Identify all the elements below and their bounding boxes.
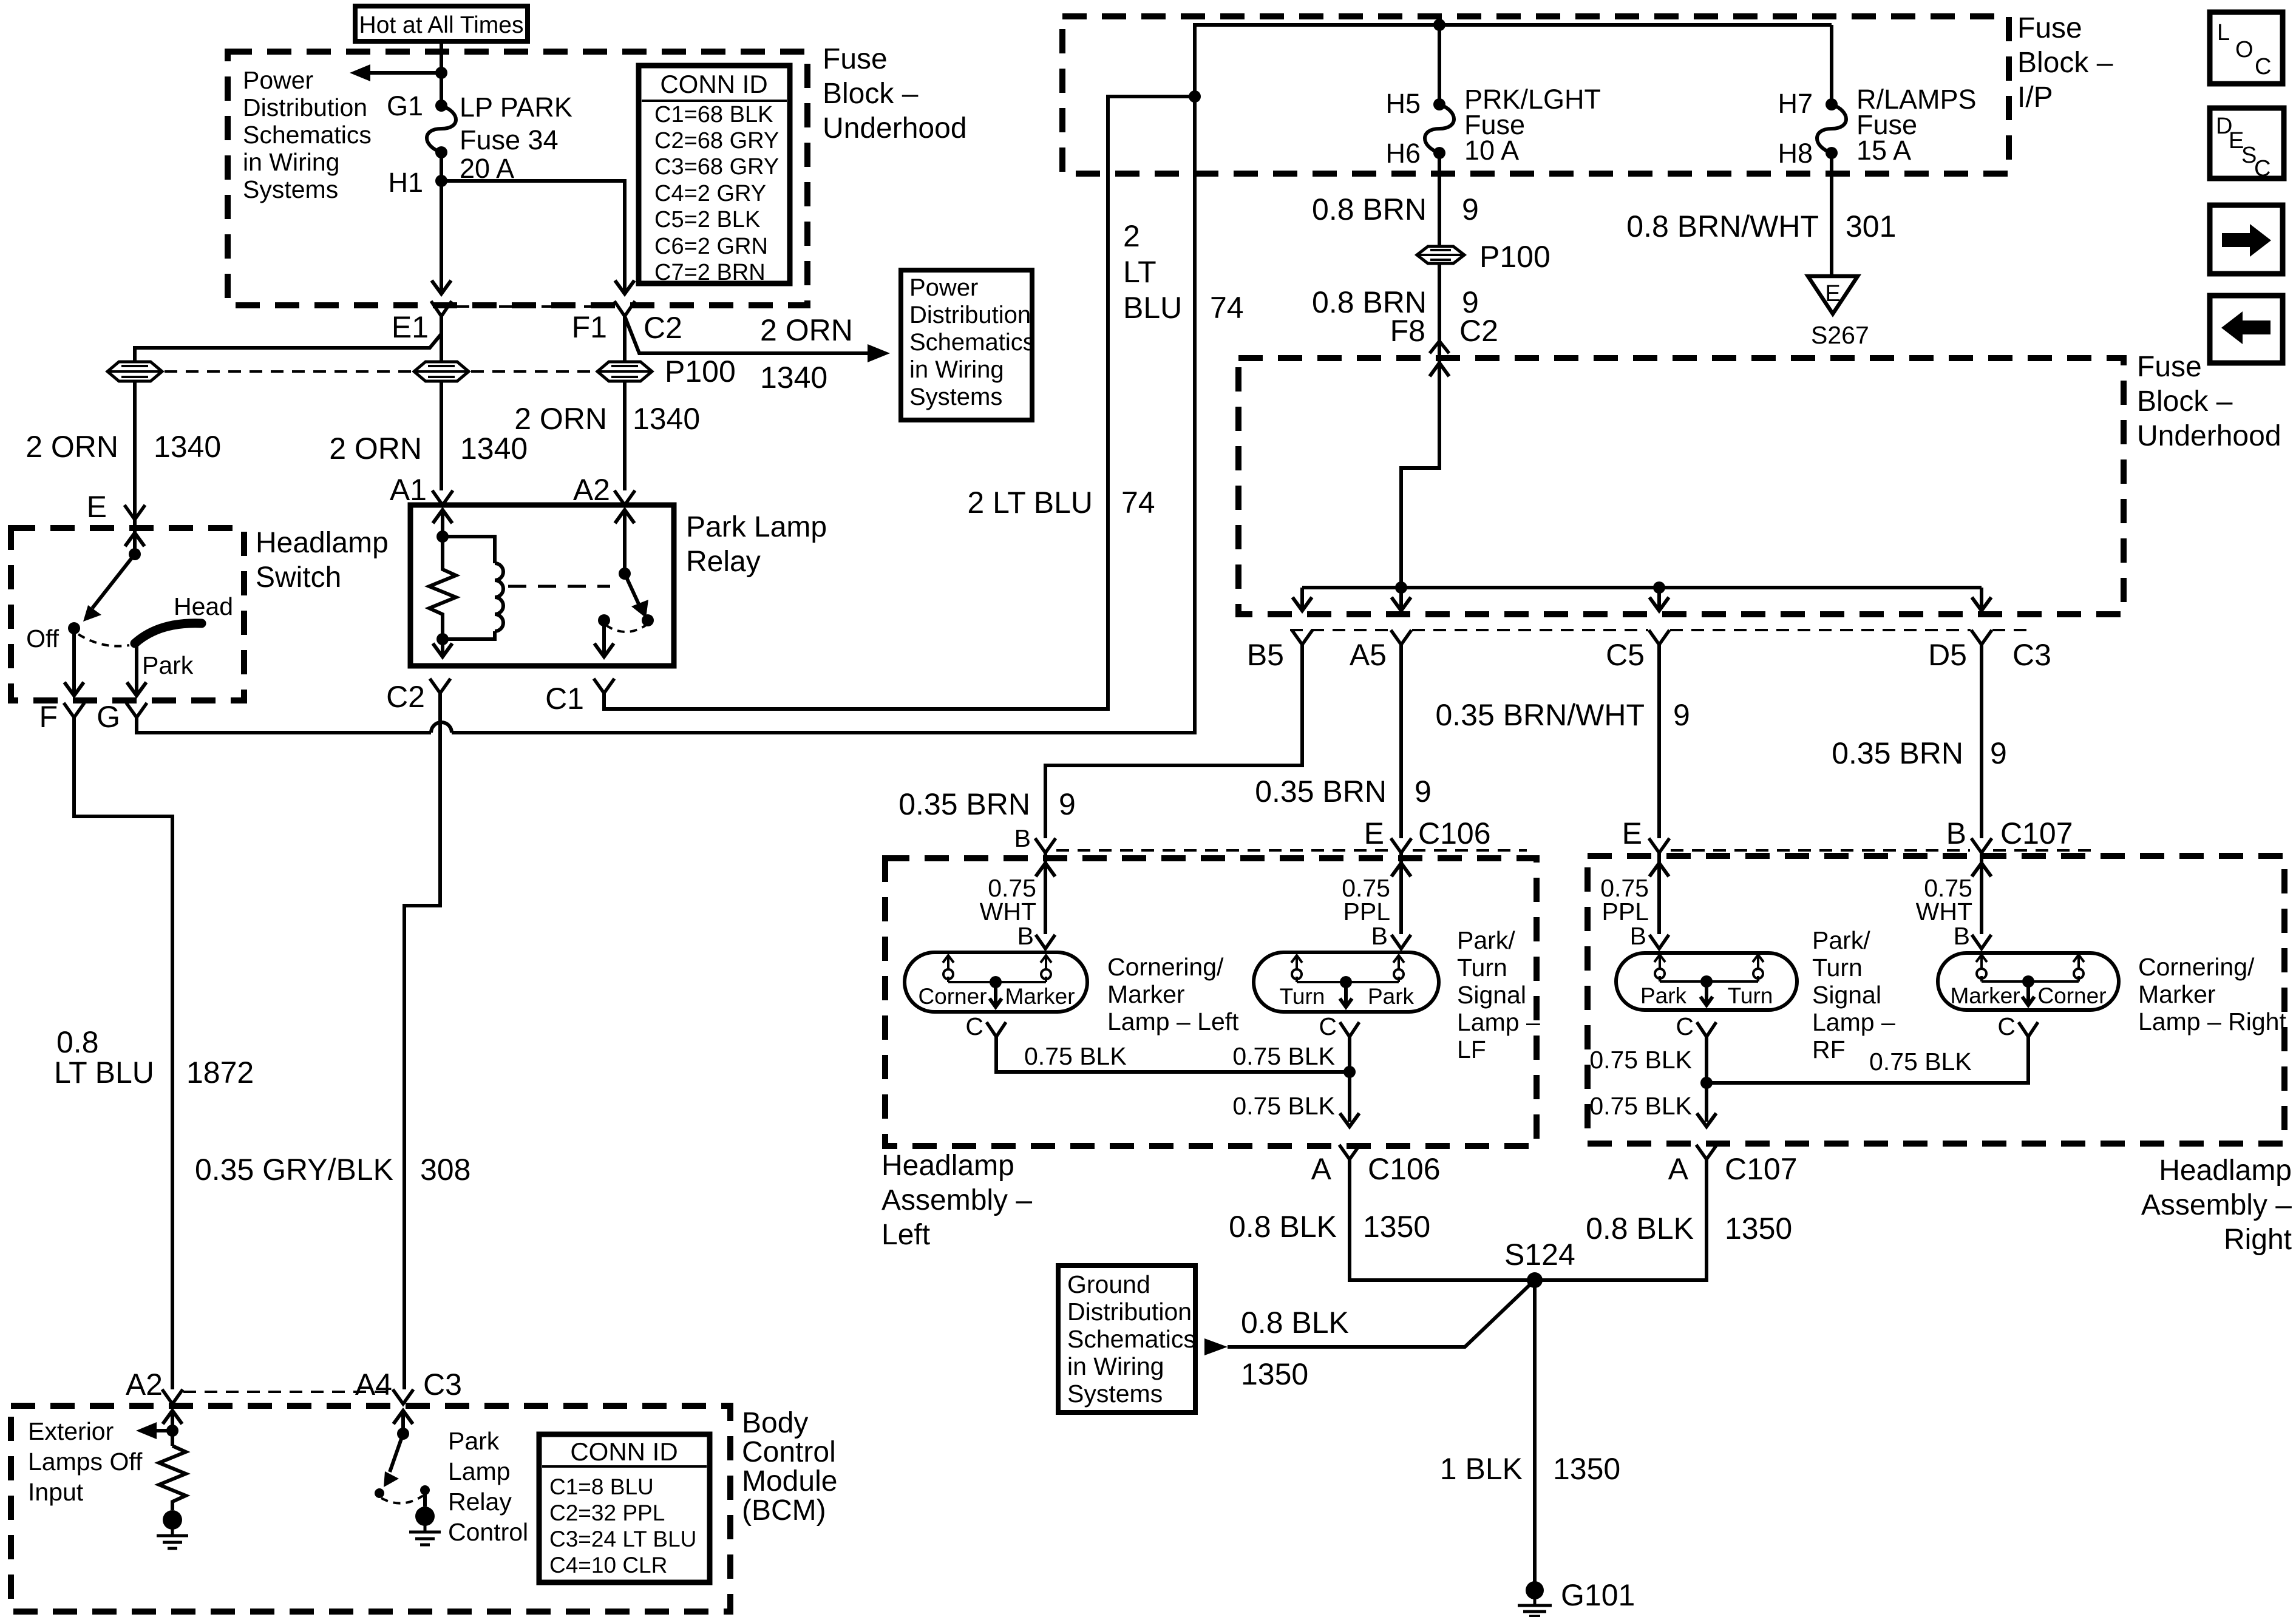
Fuse Block - Underhood (right) dashed box xyxy=(1238,358,2124,614)
arrowhead into Power Distribution Schematics (filled, right) xyxy=(868,344,890,362)
svg-text:G101: G101 xyxy=(1561,1578,1635,1612)
svg-text:C: C xyxy=(1319,1012,1337,1040)
lamp: Park/Turn Signal Lamp - RF xyxy=(1616,953,1797,1010)
inline connector grommet (E wire) xyxy=(107,362,162,381)
svg-text:0.75 BLK: 0.75 BLK xyxy=(1869,1048,1972,1076)
svg-text:S124: S124 xyxy=(1504,1238,1575,1272)
svg-text:Lamp –: Lamp – xyxy=(1812,1008,1895,1036)
connector line E1-F1 (dashed) xyxy=(457,305,610,308)
svg-text:E1: E1 xyxy=(392,310,429,344)
splice symbol S267 (triangle) xyxy=(1808,276,1858,314)
svg-text:9: 9 xyxy=(1415,775,1432,808)
wire P100 down to F8 xyxy=(1438,263,1441,358)
svg-text:Left: Left xyxy=(881,1219,930,1251)
node: switch pivot xyxy=(129,548,141,560)
svg-text:0.35 BRN: 0.35 BRN xyxy=(1832,736,1963,770)
svg-text:Body: Body xyxy=(742,1407,808,1439)
svg-text:Control: Control xyxy=(448,1518,528,1546)
label: Headlamp Assembly - Right xyxy=(2141,1154,2292,1256)
svg-text:Headlamp: Headlamp xyxy=(2159,1154,2292,1187)
svg-text:Marker: Marker xyxy=(1005,984,1075,1009)
svg-text:A: A xyxy=(1311,1152,1332,1186)
connector chevron C (left park/turn lamp) xyxy=(1340,1022,1359,1037)
svg-text:1350: 1350 xyxy=(1725,1212,1792,1246)
wire BCM contact to ground xyxy=(423,1490,427,1507)
label 0.75 / PPL (right) xyxy=(1600,874,1649,926)
wire down to PRK/LGHT fuse xyxy=(1438,25,1441,104)
connector chevron B (C107) xyxy=(1971,838,1992,853)
svg-text:Control: Control xyxy=(742,1436,836,1468)
wire H6 down to P100 xyxy=(1438,153,1441,246)
svg-text:74: 74 xyxy=(1121,486,1155,520)
Park Lamp Relay box xyxy=(410,505,674,666)
svg-text:S267: S267 xyxy=(1811,321,1869,349)
arrowhead of switch arm (filled) xyxy=(83,605,101,622)
svg-text:E: E xyxy=(87,490,107,524)
svg-text:in Wiring: in Wiring xyxy=(909,356,1004,383)
wire S124 to ground distribution xyxy=(1228,1280,1535,1347)
resistor (BCM input) xyxy=(159,1446,186,1510)
inline connector grommet P100 (I/P) xyxy=(1417,246,1464,263)
wire F8 into underhood fuse block xyxy=(1401,358,1439,588)
wire A C107 down to S124 xyxy=(1535,1159,1707,1280)
svg-text:B: B xyxy=(1014,824,1031,852)
arrowhead down at F exit xyxy=(64,682,84,696)
connector chevron A1 xyxy=(432,490,453,505)
arrowhead down at D5 xyxy=(1972,597,1991,611)
connector chevron B (left park/turn lamp) xyxy=(1391,935,1411,949)
wire A4 into BCM xyxy=(401,1411,405,1434)
dashed arc between BCM contacts xyxy=(381,1496,423,1503)
label 0.75 / PPL (left) xyxy=(1342,874,1390,926)
svg-text:in Wiring: in Wiring xyxy=(243,148,339,176)
label: Cornering/ Marker Lamp - Right xyxy=(2138,953,2286,1036)
svg-text:2 LT BLU: 2 LT BLU xyxy=(967,486,1093,520)
wire Park contact down to G xyxy=(135,644,138,696)
svg-text:Marker: Marker xyxy=(1950,983,2020,1008)
svg-text:G: G xyxy=(97,700,120,734)
svg-text:Block –: Block – xyxy=(2017,47,2113,79)
inline connector grommet (A1 wire) xyxy=(414,362,469,381)
label 0.75 / WHT (right) xyxy=(1916,874,1972,926)
next-page arrow box (right) xyxy=(2210,205,2283,274)
svg-text:9: 9 xyxy=(1462,192,1479,226)
svg-text:(BCM): (BCM) xyxy=(742,1494,826,1527)
arrowhead down at C2 exit xyxy=(433,643,452,657)
svg-text:C5: C5 xyxy=(1606,638,1645,672)
arrowhead down at A5 xyxy=(1391,597,1411,611)
arrowhead down at C5 xyxy=(1649,597,1669,611)
wire bus drop B5 xyxy=(1300,588,1304,611)
svg-text:C3=68 GRY: C3=68 GRY xyxy=(654,154,779,180)
svg-text:F: F xyxy=(39,700,58,734)
Fuse Block - Underhood (top-left) dashed box xyxy=(228,52,807,305)
svg-text:Lamp – Left: Lamp – Left xyxy=(1107,1008,1239,1036)
node: splice S124 xyxy=(1527,1272,1543,1288)
wire B5 to left cornering lamp B xyxy=(1045,645,1302,838)
svg-text:H5: H5 xyxy=(1385,88,1421,119)
svg-text:Underhood: Underhood xyxy=(823,112,967,144)
lamp: Park/Turn Signal Lamp - LF xyxy=(1254,952,1439,1012)
svg-text:301: 301 xyxy=(1846,209,1896,243)
svg-text:LF: LF xyxy=(1457,1036,1486,1063)
svg-text:Cornering/: Cornering/ xyxy=(1107,953,1224,981)
svg-text:Systems: Systems xyxy=(243,175,338,203)
wire E into right assembly xyxy=(1657,853,1661,934)
svg-text:C: C xyxy=(1997,1012,2016,1040)
svg-text:G1: G1 xyxy=(387,90,423,121)
Headlamp Assembly - Right dashed box xyxy=(1588,856,2284,1144)
svg-text:Park Lamp: Park Lamp xyxy=(686,511,827,543)
connector chevron B (right park/turn lamp) xyxy=(1649,935,1669,949)
connector chevron E (C106) xyxy=(1391,838,1411,853)
arrowhead to Power Distribution Schematics (filled, left) xyxy=(350,64,370,81)
CONN ID table (BCM) xyxy=(539,1434,710,1582)
node: bus junction A5 xyxy=(1395,581,1407,594)
wire bus drop A5 xyxy=(1399,588,1403,611)
node: relay contact (left) xyxy=(598,614,610,626)
svg-text:L: L xyxy=(2217,20,2230,46)
svg-text:B: B xyxy=(1954,922,1970,950)
connector chevron C5 xyxy=(1649,630,1669,645)
svg-text:0.8 BRN: 0.8 BRN xyxy=(1312,192,1427,226)
arrowhead up (left assembly E entry) xyxy=(1391,863,1411,876)
ground G101 xyxy=(1518,1581,1552,1616)
svg-text:0.8 BLK: 0.8 BLK xyxy=(1229,1210,1337,1244)
svg-text:C106: C106 xyxy=(1418,816,1491,850)
wire hop over C2 wire xyxy=(431,722,452,733)
wire C (right park/turn) down xyxy=(1705,1037,1708,1122)
arrowhead up at underhood entry xyxy=(1430,363,1449,376)
label: Fuse Block - Underhood (right) xyxy=(2137,351,2281,452)
label 0.8 / LT BLU (F wire) xyxy=(54,1025,154,1090)
wire relay contact to C1 xyxy=(602,620,606,657)
label: Body Control Module (BCM) xyxy=(742,1407,837,1527)
Headlamp Assembly - Left dashed box xyxy=(885,858,1537,1146)
svg-text:Switch: Switch xyxy=(256,561,341,594)
svg-text:Systems: Systems xyxy=(909,384,1002,410)
svg-text:1340: 1340 xyxy=(154,430,221,464)
arrowhead of BCM switch arm (filled) xyxy=(384,1471,399,1487)
svg-text:A2: A2 xyxy=(126,1368,163,1402)
relay resistor (zigzag) xyxy=(429,537,456,639)
arrowhead down at E1 exit xyxy=(432,280,451,294)
node: BCM contact (right) xyxy=(420,1485,430,1495)
svg-text:A4: A4 xyxy=(355,1368,392,1402)
svg-text:B: B xyxy=(1946,816,1966,850)
svg-text:0.75 BLK: 0.75 BLK xyxy=(1024,1042,1127,1070)
wire B into right assembly xyxy=(1980,853,1983,934)
wire D5 down to C107 xyxy=(1980,645,1983,838)
connector chevron A2 xyxy=(614,490,635,505)
svg-text:Relay: Relay xyxy=(686,546,761,578)
arrowhead up (right assembly E entry) xyxy=(1649,863,1669,876)
svg-text:Block –: Block – xyxy=(823,78,919,110)
connector chevron A2 (BCM) xyxy=(162,1389,183,1404)
svg-text:F8: F8 xyxy=(1390,314,1425,348)
wire junction to right marker C xyxy=(1707,1037,2028,1083)
svg-text:C1=68 BLK: C1=68 BLK xyxy=(654,102,773,127)
svg-text:C6=2 GRN: C6=2 GRN xyxy=(654,234,768,259)
svg-text:Turn: Turn xyxy=(1280,984,1325,1009)
svg-text:Input: Input xyxy=(28,1478,84,1506)
dashed arc between relay contacts xyxy=(606,625,646,632)
arrowhead Exterior Lamps Off Input (filled, left) xyxy=(136,1422,157,1439)
svg-text:1350: 1350 xyxy=(1363,1210,1430,1244)
svg-text:10 A: 10 A xyxy=(1464,135,1519,166)
wire to Power Distribution Schematics (left) xyxy=(367,71,441,75)
connector chevron F xyxy=(64,703,84,717)
node: exterior lamps off input xyxy=(166,1425,178,1437)
arrowhead down at C1 exit xyxy=(594,643,614,657)
arrowhead down at right assembly exit xyxy=(1697,1113,1716,1127)
connector chevron C (left cornering lamp) xyxy=(987,1022,1006,1037)
svg-text:Underhood: Underhood xyxy=(2137,420,2281,452)
svg-text:RF: RF xyxy=(1812,1036,1846,1063)
svg-text:CONN ID: CONN ID xyxy=(660,70,767,98)
svg-text:308: 308 xyxy=(420,1153,470,1187)
arrowhead down at left assembly exit xyxy=(1340,1113,1359,1127)
svg-text:Systems: Systems xyxy=(1067,1380,1163,1408)
wire A1 into relay xyxy=(441,510,444,537)
connector line C107 (dashed) xyxy=(1671,849,2091,852)
svg-text:1340: 1340 xyxy=(633,402,700,436)
relay coil xyxy=(443,537,503,639)
svg-text:E: E xyxy=(1825,281,1840,307)
svg-text:Fuse 34: Fuse 34 xyxy=(460,124,559,155)
CONN ID table (fuse block underhood) xyxy=(639,66,790,285)
svg-text:Hot at All Times: Hot at All Times xyxy=(359,12,524,38)
node: BCM contact (left) xyxy=(375,1488,384,1498)
svg-text:Marker: Marker xyxy=(1107,980,1185,1008)
svg-text:H8: H8 xyxy=(1778,138,1813,169)
dashed line through inline connectors 2 xyxy=(471,370,595,373)
arrowhead up at A2 entry xyxy=(163,1411,182,1424)
svg-text:Lamp – Right: Lamp – Right xyxy=(2138,1008,2286,1036)
svg-text:C2: C2 xyxy=(386,680,425,714)
connector chevron F1 xyxy=(614,301,635,316)
wire: I/P feed bus xyxy=(1195,25,1832,97)
BCM switch arm xyxy=(390,1434,403,1472)
svg-text:0.35 BRN: 0.35 BRN xyxy=(1255,775,1387,808)
svg-text:Turn: Turn xyxy=(1812,954,1863,981)
svg-text:D5: D5 xyxy=(1928,638,1967,672)
svg-text:Park: Park xyxy=(1640,983,1687,1008)
svg-text:Power: Power xyxy=(909,274,978,301)
fuse LP PARK Fuse 34 20 A xyxy=(427,100,456,158)
svg-text:Turn: Turn xyxy=(1457,954,1507,981)
svg-text:Module: Module xyxy=(742,1465,837,1497)
connector chevron F8-C2 xyxy=(1430,341,1449,353)
lamp: Cornering/Marker Lamp - Left xyxy=(905,952,1087,1012)
fuse R/LAMPS 15 A (H7-H8) xyxy=(1817,98,1846,159)
svg-text:Fuse: Fuse xyxy=(2017,12,2082,44)
svg-text:Fuse: Fuse xyxy=(2137,351,2202,383)
relay switch arm xyxy=(625,574,639,604)
dashed line through inline connectors xyxy=(165,370,412,373)
Ground Distribution Schematics box xyxy=(1058,1266,1196,1412)
svg-text:Signal: Signal xyxy=(1812,981,1881,1009)
svg-text:in Wiring: in Wiring xyxy=(1067,1352,1164,1380)
svg-text:Corner: Corner xyxy=(2037,983,2106,1008)
svg-text:Schematics: Schematics xyxy=(243,121,372,149)
LOC reference box xyxy=(2210,12,2283,84)
node: relay coil top xyxy=(436,531,449,543)
svg-text:0.8 BLK: 0.8 BLK xyxy=(1241,1306,1349,1340)
svg-text:0.75 BLK: 0.75 BLK xyxy=(1232,1092,1335,1120)
svg-text:1350: 1350 xyxy=(1241,1357,1308,1391)
svg-text:Park: Park xyxy=(142,651,194,679)
arrowhead from Ground Distribution (filled, right) xyxy=(1204,1338,1228,1355)
wire Off contact down to F xyxy=(72,633,76,696)
connector chevron C1 (relay) xyxy=(594,679,614,693)
wire E to switch pivot xyxy=(133,520,137,554)
svg-text:9: 9 xyxy=(1673,698,1690,732)
Body Control Module dashed box xyxy=(11,1406,730,1612)
arrowhead up (right assembly B entry) xyxy=(1972,863,1991,876)
connector chevron C (right park/turn lamp) xyxy=(1697,1022,1716,1037)
label: Fuse Block - I/P xyxy=(2017,12,2113,114)
wire G right to fuse block I/P riser (with hop) xyxy=(137,102,1195,733)
svg-text:C4=10 CLR: C4=10 CLR xyxy=(549,1553,667,1578)
arrowhead up at A2 entry xyxy=(615,510,634,523)
Fuse Block - I/P dashed box xyxy=(1062,16,2009,174)
svg-text:A: A xyxy=(1668,1152,1689,1186)
connector chevron B (right marker lamp) xyxy=(1972,935,1991,949)
svg-text:B: B xyxy=(1371,922,1388,950)
wire C2 down to BCM A4 xyxy=(404,693,440,1389)
wire: underhood distribution bus xyxy=(1302,586,1982,589)
arrowhead up (left assembly B entry) xyxy=(1036,863,1055,876)
DESC reference box xyxy=(2210,108,2284,181)
svg-text:E: E xyxy=(1622,816,1642,850)
svg-text:9: 9 xyxy=(1059,787,1076,821)
svg-text:Off: Off xyxy=(26,625,59,653)
node: relay coil bottom xyxy=(436,633,449,645)
arrowhead of relay switch arm (filled) xyxy=(631,600,648,618)
svg-text:1340: 1340 xyxy=(760,361,827,395)
svg-text:15 A: 15 A xyxy=(1856,135,1911,166)
dashed arc Off to Park xyxy=(78,634,129,646)
svg-text:A1: A1 xyxy=(390,473,427,507)
svg-text:C107: C107 xyxy=(1725,1152,1798,1186)
label: Park Lamp Relay xyxy=(686,511,827,578)
svg-text:BLU: BLU xyxy=(1123,291,1182,325)
node: relay contact (right) xyxy=(642,614,654,626)
svg-text:C106: C106 xyxy=(1368,1152,1441,1186)
svg-text:P100: P100 xyxy=(665,354,736,388)
node: bus junction C5 xyxy=(1653,581,1665,594)
connector chevron B5 xyxy=(1292,630,1313,645)
connector chevron B (left cornering lamp) xyxy=(1036,935,1055,949)
wire A2 into BCM xyxy=(171,1411,174,1446)
wire to Exterior Lamps Off Input (left) xyxy=(153,1429,172,1432)
svg-text:B5: B5 xyxy=(1247,638,1284,672)
value label PRK/LGHT Fuse 10 A xyxy=(1464,84,1601,166)
svg-text:Distribution: Distribution xyxy=(909,302,1031,328)
svg-text:Right: Right xyxy=(2224,1224,2292,1256)
label: Park Lamp Relay Control xyxy=(448,1427,528,1546)
wire A2 to relay switch pivot xyxy=(623,510,627,574)
svg-text:1872: 1872 xyxy=(186,1056,254,1090)
svg-text:Exterior: Exterior xyxy=(28,1417,114,1445)
wire A C106 down to S124 xyxy=(1350,1159,1535,1280)
node: bus junction at PRK/LGHT fuse xyxy=(1433,19,1445,31)
wire down to R/LAMPS fuse xyxy=(1830,25,1833,104)
connector chevron E1 xyxy=(431,301,452,316)
svg-text:A5: A5 xyxy=(1350,638,1387,672)
svg-text:Ground: Ground xyxy=(1067,1270,1150,1298)
connector line B5-A5-C5-D5 (dashed) xyxy=(1290,629,2034,631)
label: Headlamp Switch xyxy=(256,527,389,594)
previous-page arrow box (left) xyxy=(2210,296,2283,363)
connector chevron B (C106 left) xyxy=(1035,838,1056,853)
connector chevron E (C107) xyxy=(1649,838,1669,853)
svg-text:C: C xyxy=(1676,1012,1694,1040)
svg-text:C: C xyxy=(2255,54,2271,80)
label: Fuse Block - Underhood (top-left) xyxy=(823,43,967,144)
wire E into left assembly xyxy=(1399,853,1403,934)
Hot at All Times box xyxy=(355,6,528,41)
svg-text:Signal: Signal xyxy=(1457,981,1526,1009)
svg-text:Assembly –: Assembly – xyxy=(881,1184,1032,1216)
svg-text:C3: C3 xyxy=(2012,638,2051,672)
inline connector grommet P100 (A2 wire) xyxy=(597,362,652,381)
switch arm (to Off) xyxy=(92,554,135,608)
arrowhead up at A4 entry xyxy=(393,1411,413,1424)
svg-text:C4=2 GRY: C4=2 GRY xyxy=(654,181,766,206)
connector chevron A (C106) xyxy=(1339,1145,1360,1159)
svg-text:2 ORN: 2 ORN xyxy=(329,432,422,466)
label: Cornering/ Marker Lamp - Left xyxy=(1107,953,1239,1036)
Headlamp Switch dashed box xyxy=(11,528,244,700)
wire H1 down to E1 xyxy=(440,152,443,291)
svg-text:Turn: Turn xyxy=(1728,983,1773,1008)
node: power branch junction xyxy=(435,67,447,79)
ground (relay control) xyxy=(409,1507,441,1545)
wire F1 down to relay A2 xyxy=(623,316,627,490)
svg-text:H1: H1 xyxy=(388,167,423,198)
svg-text:Power: Power xyxy=(243,66,313,94)
svg-text:0.35 GRY/BLK: 0.35 GRY/BLK xyxy=(195,1153,393,1187)
svg-text:H7: H7 xyxy=(1778,88,1813,119)
node: right assembly ground junction xyxy=(1700,1077,1713,1089)
svg-text:Relay: Relay xyxy=(448,1488,512,1516)
wire A1 from lens down xyxy=(440,316,443,490)
svg-text:Park: Park xyxy=(1368,984,1415,1009)
fuse PRK/LGHT 10 A (H5-H6) xyxy=(1425,98,1454,159)
svg-text:Fuse: Fuse xyxy=(823,43,888,75)
wire E1 down-left to inline connector and down to E xyxy=(135,316,441,534)
svg-text:0.8 BLK: 0.8 BLK xyxy=(1586,1212,1694,1246)
svg-text:CONN ID: CONN ID xyxy=(570,1437,678,1466)
arrowhead up at A1 entry xyxy=(433,510,452,523)
arrowhead down at B5 xyxy=(1292,597,1312,611)
wire B into left assembly xyxy=(1044,853,1047,934)
svg-text:LT BLU: LT BLU xyxy=(54,1056,154,1090)
svg-text:74: 74 xyxy=(1210,291,1244,325)
connector line C106 (dashed) xyxy=(1056,849,1527,852)
svg-text:Distribution: Distribution xyxy=(1067,1298,1192,1326)
svg-text:0.75 BLK: 0.75 BLK xyxy=(1232,1042,1335,1070)
svg-text:C7=2 BRN: C7=2 BRN xyxy=(654,260,766,285)
svg-text:Assembly –: Assembly – xyxy=(2141,1189,2292,1221)
lamp: Cornering/Marker Lamp - Right xyxy=(1938,953,2119,1010)
svg-text:C1=8 BLU: C1=8 BLU xyxy=(549,1474,654,1499)
ground (BCM input) xyxy=(157,1510,188,1548)
wire C5 down to C107 xyxy=(1657,645,1661,838)
svg-text:C3: C3 xyxy=(423,1368,462,1402)
